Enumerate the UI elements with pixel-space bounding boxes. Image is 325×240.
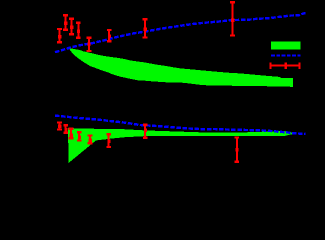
bottom error bar A — [57, 123, 62, 130]
top panel blue dashed theory curve — [55, 13, 306, 52]
top error bar 3 — [69, 19, 74, 35]
top panel green uncertainty band — [69, 48, 294, 87]
bottom error bar H (tall) — [234, 138, 239, 162]
legend blue dashed line — [271, 54, 300, 56]
bottom error bar F — [106, 134, 111, 147]
bottom error bar E — [88, 136, 93, 144]
bottom error bar C — [69, 129, 74, 139]
top error bar 2 — [63, 15, 68, 30]
top error bar 4 — [76, 23, 81, 38]
bottom error bar G — [143, 125, 148, 138]
top error bar 7 — [143, 19, 148, 37]
top error bar 5 — [87, 38, 92, 51]
legend green band swatch — [271, 42, 301, 50]
bottom panel blue dashed theory curve — [55, 116, 306, 134]
top error bar 8 (tall) — [230, 2, 235, 35]
bottom error bar B — [63, 125, 68, 133]
top error bar 6 — [107, 30, 112, 41]
top error bar 1 — [57, 29, 62, 42]
legend red error bar (horizontal) — [271, 63, 300, 69]
bottom panel green band (wedge) — [68, 128, 292, 163]
bottom error bar D — [77, 132, 82, 140]
